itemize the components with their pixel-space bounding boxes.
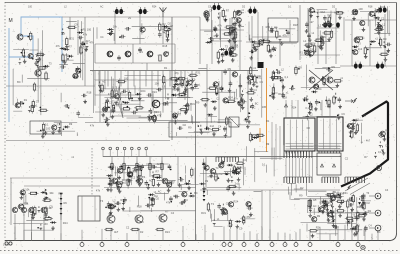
wire — [62, 16, 200, 18]
wire harness — [114, 160, 198, 190]
svg-text:R1: R1 — [300, 50, 304, 54]
capacitor C48 — [354, 9, 358, 15]
label — [214, 34, 218, 38]
node — [238, 11, 240, 13]
diode D47 — [247, 112, 250, 118]
svg-text:D2: D2 — [374, 9, 378, 13]
svg-text:BC: BC — [140, 220, 144, 224]
svg-text:R7: R7 — [165, 209, 169, 213]
wire — [107, 71, 109, 87]
svg-text:R24: R24 — [164, 50, 169, 54]
capacitor C111 — [355, 215, 359, 221]
diode chain — [60, 192, 63, 220]
node — [115, 205, 117, 207]
wire — [149, 157, 151, 177]
svg-text:C9: C9 — [205, 179, 209, 183]
capacitor C11 — [158, 32, 162, 38]
label — [100, 6, 104, 9]
resistor R55 — [321, 37, 323, 47]
ground — [386, 48, 390, 52]
node — [232, 172, 234, 174]
diode D51 — [311, 90, 317, 93]
svg-text:R1: R1 — [164, 66, 168, 70]
capacitor C26 — [174, 77, 178, 83]
diode D33 — [219, 48, 225, 51]
svg-text:R18: R18 — [293, 23, 298, 27]
node — [352, 220, 354, 222]
label — [140, 230, 144, 234]
svg-text:C9: C9 — [192, 78, 196, 82]
capacitor C9 — [117, 55, 121, 61]
wire — [114, 12, 116, 44]
svg-text:2x: 2x — [128, 16, 132, 20]
label — [309, 20, 314, 24]
node — [378, 43, 380, 45]
ground — [327, 37, 331, 41]
node — [223, 161, 225, 163]
ground — [338, 15, 342, 19]
label — [113, 25, 118, 29]
capacitor C59 — [289, 87, 295, 91]
capacitor C87 — [30, 213, 36, 217]
wire — [205, 157, 207, 191]
resistor R43 — [224, 26, 234, 28]
connector CN3 — [322, 177, 339, 183]
wire harness — [309, 7, 345, 58]
transistor Q57 — [41, 207, 47, 213]
node — [168, 34, 170, 36]
node — [180, 177, 182, 179]
label — [253, 88, 257, 92]
diode D69 — [45, 193, 48, 199]
node — [211, 40, 213, 42]
svg-text:R9: R9 — [69, 122, 73, 126]
node — [225, 19, 227, 21]
resistor R68 — [200, 98, 210, 100]
transformer core blob — [336, 22, 340, 27]
diode D92 — [379, 141, 382, 147]
svg-text:10k: 10k — [25, 187, 30, 191]
node — [324, 82, 326, 84]
label — [259, 40, 262, 44]
ground — [31, 216, 35, 220]
node — [42, 55, 44, 57]
label — [190, 102, 195, 106]
diode D56 — [184, 182, 190, 185]
node — [303, 99, 305, 101]
capacitor C81 — [223, 126, 227, 132]
resistor R61 — [364, 46, 366, 56]
transistor Q68 — [222, 209, 228, 214]
svg-text:C4: C4 — [243, 158, 247, 162]
label — [336, 191, 340, 195]
transistor Q52 — [203, 165, 209, 170]
capacitor C46 — [328, 23, 334, 27]
label — [327, 13, 331, 17]
capacitor C38 — [269, 29, 275, 33]
wire — [325, 30, 327, 64]
ground — [187, 186, 191, 190]
svg-text:R1: R1 — [385, 129, 389, 133]
transistor Q59 — [18, 204, 24, 209]
capacitor C20 — [105, 98, 109, 104]
node — [184, 93, 186, 95]
resistor R42 — [222, 8, 224, 18]
label — [89, 40, 94, 44]
ground — [209, 174, 213, 178]
capacitor C61 — [275, 70, 281, 74]
label — [381, 5, 386, 9]
wire — [95, 62, 175, 64]
label — [385, 144, 389, 148]
wire — [136, 157, 138, 184]
speaker terminal — [369, 193, 381, 199]
capacitor C39 — [270, 26, 274, 32]
node — [175, 80, 177, 82]
chassis terminal — [356, 241, 360, 247]
wire harness — [111, 86, 191, 117]
node — [46, 197, 48, 199]
svg-text:AC: AC — [158, 190, 162, 194]
svg-text:AC: AC — [252, 106, 256, 110]
transistor Q22 — [203, 13, 209, 18]
resistor R103 — [42, 199, 52, 201]
transistor Q66 — [228, 202, 234, 207]
transistor Q47 — [112, 178, 118, 184]
ground — [212, 132, 216, 136]
label — [216, 97, 220, 101]
ground — [41, 134, 45, 138]
transistor Q42 — [116, 183, 122, 188]
resistor R85 — [114, 182, 124, 184]
label — [310, 48, 314, 52]
node — [109, 183, 111, 185]
ground — [364, 55, 368, 59]
label — [172, 87, 176, 91]
wire harness — [301, 191, 365, 236]
capacitor C15 — [104, 118, 110, 122]
capacitor C71 — [126, 179, 132, 183]
transformer T7 — [223, 49, 234, 56]
diode D36 — [279, 35, 282, 41]
ground — [75, 74, 79, 78]
label — [218, 172, 223, 176]
chassis terminal — [125, 241, 129, 247]
svg-text:2n2: 2n2 — [235, 181, 240, 185]
blue wire net B1 — [9, 17, 62, 122]
resistor R28 — [188, 74, 198, 76]
ground — [166, 38, 170, 42]
label — [317, 87, 322, 91]
transistor Q70 — [311, 217, 317, 222]
label — [162, 85, 166, 89]
label — [356, 117, 359, 121]
arrow — [345, 100, 353, 103]
shield box — [169, 122, 231, 137]
label — [166, 201, 171, 205]
svg-text:T3: T3 — [211, 202, 215, 206]
ground — [378, 25, 382, 29]
label — [158, 190, 162, 194]
svg-text:C2: C2 — [132, 176, 136, 180]
orange wire net O1 — [266, 68, 268, 152]
label — [141, 89, 146, 93]
label — [363, 113, 367, 117]
svg-text:x1: x1 — [35, 104, 38, 108]
transistor Q65 — [221, 208, 227, 213]
label — [17, 80, 21, 84]
node — [359, 203, 361, 205]
label — [282, 33, 287, 37]
label — [25, 187, 30, 191]
ground — [282, 85, 286, 89]
label — [274, 26, 278, 30]
diode stack — [203, 191, 206, 201]
transistor Q74 — [379, 131, 385, 136]
node — [355, 10, 357, 12]
label — [49, 206, 54, 210]
svg-text:R24: R24 — [58, 192, 63, 196]
svg-text:C9: C9 — [165, 178, 169, 182]
diode D14 — [162, 25, 168, 28]
label — [303, 39, 306, 43]
node — [243, 220, 245, 222]
wire — [317, 10, 319, 64]
ground — [80, 41, 84, 45]
transformer T6 — [322, 21, 333, 28]
resistor R121 — [308, 230, 318, 232]
transistor Q72 — [326, 212, 332, 217]
node — [122, 101, 124, 103]
label — [133, 169, 138, 173]
node — [314, 11, 316, 13]
label — [241, 8, 244, 12]
transistor Q10 — [163, 52, 169, 57]
svg-text:0,1: 0,1 — [232, 16, 236, 20]
node — [22, 193, 24, 195]
resistor R84 — [128, 165, 130, 175]
svg-text:C9: C9 — [74, 22, 78, 26]
node — [273, 72, 275, 74]
label — [286, 90, 289, 94]
capacitor C43 — [307, 33, 311, 39]
diode D62 — [230, 176, 233, 182]
svg-text:R24: R24 — [228, 95, 233, 99]
ground — [354, 232, 358, 236]
wire — [307, 8, 309, 30]
capacitor C110 — [352, 226, 358, 230]
capacitor C100 — [361, 197, 365, 203]
label — [100, 35, 104, 39]
node — [232, 55, 234, 57]
transistor Q49 — [162, 178, 168, 184]
capacitor C28 — [208, 37, 214, 41]
svg-text:R24: R24 — [317, 87, 322, 91]
capacitor C57 — [240, 100, 246, 104]
capacitor C22 — [162, 102, 168, 106]
diode D93 — [381, 146, 384, 152]
ground — [332, 217, 336, 221]
wire — [24, 185, 100, 187]
label — [242, 6, 246, 9]
label — [234, 199, 239, 203]
capacitor C65 — [326, 68, 332, 72]
diode D86 — [332, 217, 335, 223]
node — [229, 222, 231, 224]
transistor Q9 — [147, 51, 153, 57]
svg-text:47k: 47k — [273, 46, 278, 50]
svg-text:D2: D2 — [123, 166, 127, 170]
diode D22 — [167, 94, 170, 100]
ground — [252, 46, 256, 50]
svg-text:R7: R7 — [68, 44, 72, 48]
transistor Q56 — [28, 207, 34, 212]
ground — [173, 84, 177, 88]
node — [370, 44, 372, 46]
resistor R12 — [62, 53, 64, 63]
resistor R56 — [313, 44, 315, 54]
label — [262, 163, 266, 167]
transistor Q24 — [257, 40, 263, 45]
capacitor C31 — [214, 27, 218, 33]
node — [292, 85, 294, 87]
wire — [177, 157, 179, 186]
label — [219, 86, 224, 90]
svg-text:R9: R9 — [63, 201, 67, 205]
transistor Q5 — [72, 73, 78, 78]
svg-text:R9: R9 — [383, 37, 387, 41]
node — [36, 192, 38, 194]
resistor R33 — [179, 108, 189, 110]
svg-text:AC: AC — [313, 198, 317, 202]
svg-text:0,1: 0,1 — [378, 150, 382, 154]
ground — [232, 191, 236, 195]
label — [156, 162, 161, 166]
label — [9, 18, 13, 24]
wire harness — [200, 158, 245, 195]
ground — [361, 202, 365, 206]
wire — [206, 64, 208, 127]
svg-text:R1: R1 — [266, 119, 270, 123]
node — [350, 123, 352, 125]
label — [324, 204, 329, 208]
wire — [90, 70, 258, 72]
ground — [362, 201, 366, 205]
svg-text:0,1: 0,1 — [45, 123, 49, 127]
label — [164, 66, 168, 70]
resistor R78 — [323, 76, 325, 86]
node — [63, 128, 65, 130]
resistor R112 — [207, 202, 209, 212]
svg-text:47k: 47k — [234, 96, 239, 100]
label — [192, 78, 196, 82]
wire — [139, 12, 141, 44]
resistor R95 — [161, 162, 163, 172]
node — [37, 61, 39, 63]
svg-text:0,1: 0,1 — [285, 75, 289, 79]
label — [141, 175, 145, 179]
resistor R91 — [111, 162, 113, 172]
capacitor C60 — [281, 92, 285, 98]
resistor R66 — [246, 92, 256, 94]
resistor R96 — [211, 128, 221, 130]
node — [263, 39, 265, 41]
diode D29 — [58, 123, 61, 129]
capacitor C44 — [323, 15, 327, 21]
node — [330, 210, 332, 212]
diode D28 — [42, 129, 45, 135]
ground — [306, 49, 310, 53]
chassis terminal — [100, 241, 104, 247]
transistor Q3 — [17, 34, 24, 40]
ground — [224, 134, 228, 138]
label — [155, 169, 159, 173]
node — [322, 76, 324, 78]
resistor R82 — [255, 134, 265, 136]
diode D80 — [321, 200, 327, 203]
diode D6 — [23, 52, 26, 58]
node — [280, 80, 282, 82]
diode D67 — [39, 224, 42, 230]
ground — [326, 22, 330, 26]
ground — [252, 83, 256, 87]
ground — [150, 203, 154, 207]
chassis terminal — [242, 241, 246, 247]
transistor Q16 — [186, 80, 192, 85]
capacitor C84 — [221, 160, 225, 166]
ground — [43, 197, 47, 201]
chassis terminal — [255, 241, 259, 247]
bus lines mid — [290, 146, 340, 149]
label — [165, 209, 169, 213]
test point — [123, 147, 126, 156]
transistor Q7 — [107, 51, 113, 57]
wire — [127, 71, 129, 95]
capacitor C49 — [385, 43, 391, 47]
label — [252, 106, 256, 110]
diode D77 — [222, 204, 225, 210]
node — [45, 193, 47, 195]
node — [337, 11, 339, 13]
label — [235, 43, 239, 47]
node — [317, 85, 319, 87]
ground — [157, 182, 161, 186]
svg-text:R1: R1 — [25, 202, 29, 206]
label — [154, 110, 159, 114]
svg-text:L2: L2 — [356, 117, 359, 121]
node — [111, 168, 113, 170]
wire harness — [345, 197, 371, 232]
ground — [360, 204, 364, 208]
resistor R123 — [356, 224, 358, 234]
ground — [99, 88, 103, 92]
wire — [261, 190, 263, 240]
svg-text:C9: C9 — [233, 185, 237, 189]
capacitor C88 — [179, 201, 185, 205]
diode D76 — [213, 219, 216, 225]
label — [171, 211, 175, 215]
wire harness — [287, 183, 338, 200]
capacitor C24 — [156, 88, 162, 92]
label — [239, 227, 243, 231]
label — [332, 191, 335, 195]
ground — [104, 107, 108, 111]
label — [116, 103, 120, 107]
node — [250, 106, 252, 108]
resistor R3 — [33, 82, 35, 92]
transformer T8 — [353, 62, 364, 69]
svg-text:R18: R18 — [278, 92, 283, 96]
